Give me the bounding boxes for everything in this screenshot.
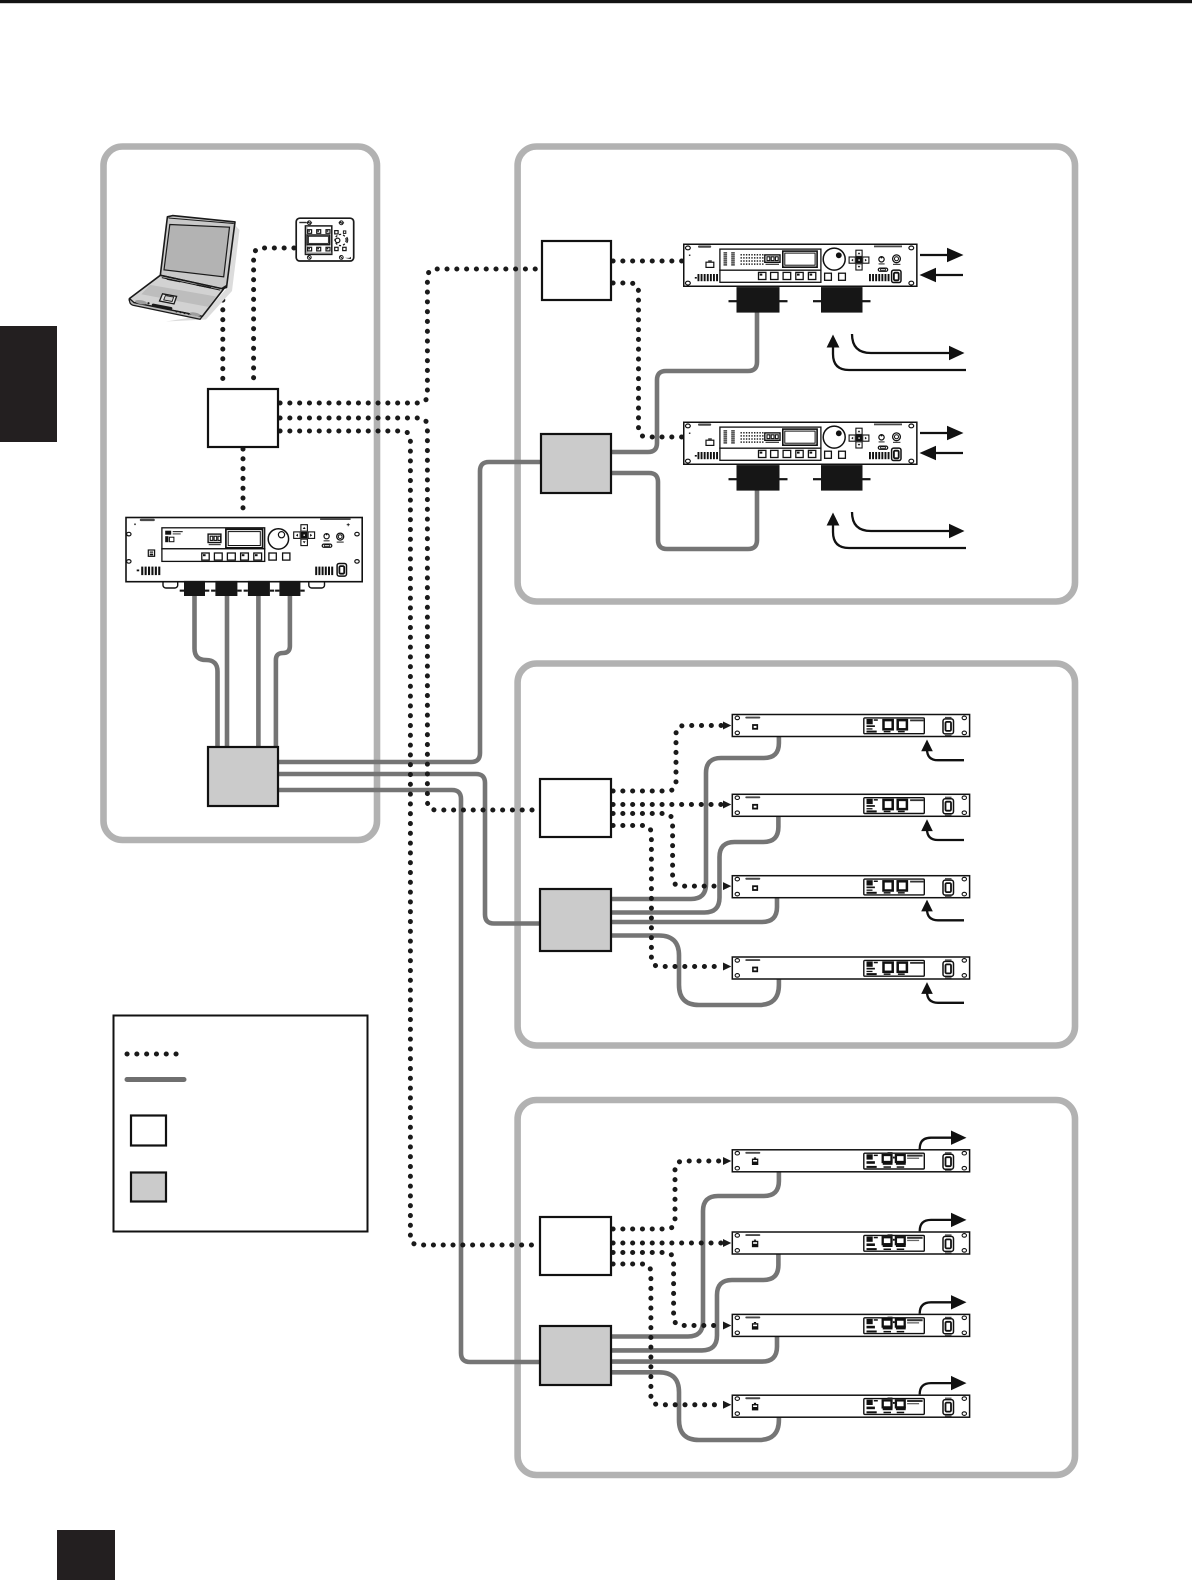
node: middle audio patch box: [540, 889, 611, 951]
processor 6 (bottom rack): [732, 1232, 969, 1254]
processor 7 (bottom rack): [732, 1314, 969, 1336]
wall control panel: [296, 218, 354, 261]
wire: bottom patch box to processor 5: [611, 1168, 779, 1337]
arrow: processor 1 feedback up: [927, 748, 964, 760]
zone frame: bottom right group: [518, 1100, 1075, 1475]
page number block: [57, 1530, 115, 1580]
wire: laptop to control box (dotted): [220, 300, 225, 387]
arrow: amplifier 1 speaker right: [852, 334, 950, 353]
wire: top patch box to amplifier 1 (dotted): [613, 259, 684, 264]
top page rule: [0, 0, 1192, 3]
arrow: amplifier 2 input left: [935, 452, 963, 454]
DME64N processor (left panel): [126, 518, 362, 582]
processor 2 (middle rack): [732, 794, 969, 816]
amplifier unit 1 (DME24N top): [684, 244, 917, 312]
node: top audio patch box: [541, 434, 611, 493]
wire: left patch box to bottom-right patch box: [278, 790, 542, 1362]
node: middle network box: [540, 779, 611, 837]
left edge chapter tab: [0, 326, 57, 442]
arrow: amplifier 2 speaker right: [852, 512, 950, 531]
node: control box (computer switch): [208, 389, 278, 447]
processor 5 (bottom rack): [732, 1150, 969, 1172]
wire: top patch box to amplifier 2 connector: [611, 473, 757, 549]
processor 3 (middle rack): [732, 876, 969, 898]
legend dotted wire sample: [127, 1052, 181, 1057]
wire: middle patch box to processor 2: [611, 813, 778, 913]
DME64N output connector block 1: [180, 581, 210, 596]
arrowhead into processor 3: [723, 882, 731, 890]
arrow: processor 3 feedback up: [927, 908, 964, 920]
wire: left patch box to middle-right patch box: [278, 774, 542, 924]
arrow: processor 2 feedback up: [927, 828, 964, 840]
wire: DME64N block3 to left patch box: [256, 592, 261, 749]
wire: bottom patch box to processor 7 (dotted): [613, 1253, 722, 1326]
arrow: amplifier 2 speaker up: [833, 523, 966, 548]
arrow: processor 5 output right: [920, 1138, 952, 1149]
arrowhead into processor 1: [723, 722, 731, 730]
wire: control box to middle patch box (dotted): [280, 418, 538, 810]
wire: middle patch box to processor 1: [611, 733, 779, 899]
arrow: processor 7 output right: [920, 1302, 952, 1313]
arrow: amplifier 1 speaker up: [833, 345, 966, 370]
wire: middle patch box to processor 3: [611, 893, 777, 922]
wire: bottom patch box to processor 8: [611, 1372, 779, 1440]
zone frame: top right group: [518, 147, 1075, 602]
wire: bottom patch box to processor 6: [611, 1251, 778, 1350]
wire: bottom patch box to processor 6 (dotted): [613, 1241, 722, 1246]
DME64N output connector block 4: [275, 581, 305, 596]
legend white box sample: [131, 1116, 166, 1146]
wire: bottom patch box to processor 5 (dotted): [613, 1161, 722, 1229]
wire: control box to top patch box (dotted): [280, 269, 540, 403]
zone frame: middle right group: [518, 664, 1075, 1046]
wire: control box to DME64N (dotted): [241, 449, 246, 515]
wire: bottom patch box to processor 7: [611, 1333, 777, 1362]
wire: top patch box to amplifier 2 (dotted): [613, 283, 684, 437]
arrow: amplifier 1 input left: [935, 274, 963, 276]
wire: wall panel to control box (dotted): [254, 248, 294, 387]
arrowhead into processor 5: [723, 1157, 731, 1165]
DME64N output connector block 2: [211, 581, 242, 596]
arrow: processor 4 feedback up: [927, 991, 964, 1003]
wire: DME64N block2 to left patch box: [225, 592, 230, 749]
wire: middle patch box to processor 1 (dotted): [613, 726, 722, 792]
laptop computer: [129, 216, 239, 322]
arrowhead into processor 2: [723, 801, 731, 809]
arrowhead into processor 6: [723, 1239, 731, 1247]
amplifier unit 2 (DME24N bottom): [684, 422, 917, 490]
legend gray box sample: [131, 1173, 166, 1202]
arrow: amplifier 1 output right: [920, 254, 948, 256]
legend audio wire sample: [127, 1077, 184, 1082]
zone frame: computer group (left): [104, 147, 378, 841]
processor 1 (middle rack): [732, 715, 969, 737]
node: bottom network box: [540, 1217, 611, 1275]
arrow: processor 6 output right: [920, 1220, 952, 1231]
arrowhead into processor 8: [723, 1401, 731, 1409]
legend box: [114, 1016, 368, 1232]
node: bottom audio patch box: [540, 1326, 611, 1385]
wire: middle patch box to processor 3 (dotted): [613, 814, 722, 887]
wire: control box to bottom patch box (dotted): [280, 431, 538, 1245]
node: top network box: [542, 241, 611, 300]
wire: middle patch box to processor 4: [611, 936, 779, 1006]
wire: left patch box to top-right patch box: [278, 462, 543, 762]
wire: DME64N block1 to left patch box: [195, 592, 218, 749]
wire: top patch box to amplifier 1 connector: [611, 305, 757, 452]
arrowhead into processor 7: [723, 1322, 731, 1330]
rack feet tabs of DME64N: [163, 579, 178, 589]
wire: DME64N block4 to left patch box: [276, 592, 290, 749]
processor 8 (bottom rack): [732, 1395, 969, 1417]
arrow: processor 8 output right: [920, 1383, 952, 1394]
wire: middle patch box to processor 2 (dotted): [613, 802, 722, 807]
DME64N output connector block 3: [244, 581, 275, 596]
arrow: amplifier 2 output right: [920, 432, 948, 434]
node: left audio patch box: [208, 747, 278, 806]
wire: bottom patch box to processor 8 (dotted): [613, 1264, 722, 1405]
processor 4 (middle rack): [732, 957, 969, 979]
wire: middle patch box to processor 4 (dotted): [613, 826, 722, 967]
arrowhead into processor 4: [723, 963, 731, 971]
